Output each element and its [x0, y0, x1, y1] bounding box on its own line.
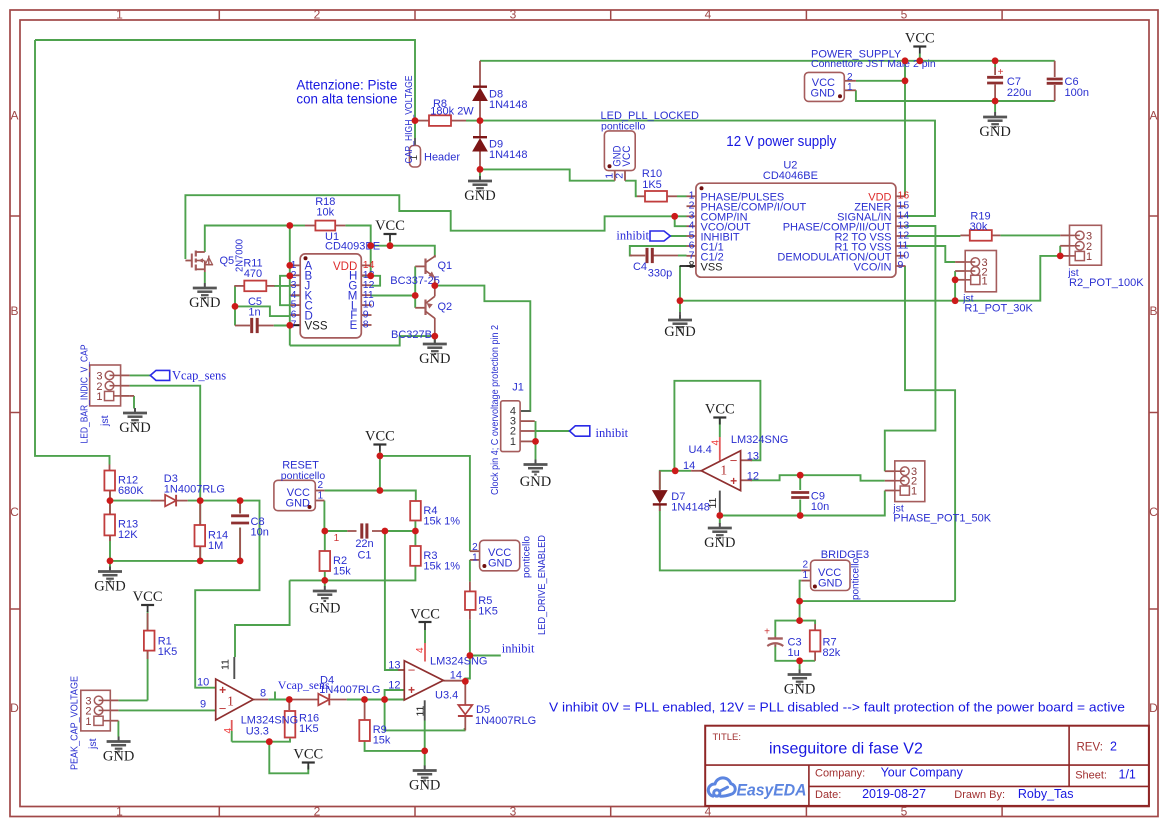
- svg-text:680K: 680K: [118, 485, 144, 497]
- svg-text:D: D: [10, 701, 19, 715]
- svg-text:A: A: [1149, 109, 1157, 123]
- svg-text:1N4148: 1N4148: [489, 99, 528, 111]
- svg-text:Header: Header: [424, 152, 460, 164]
- svg-text:1: 1: [1086, 251, 1092, 263]
- svg-text:R2_POT_100K: R2_POT_100K: [1069, 277, 1144, 289]
- svg-text:22n: 22n: [355, 538, 373, 550]
- svg-text:2: 2: [314, 7, 321, 21]
- svg-text:BRIDGE3: BRIDGE3: [821, 549, 869, 561]
- svg-text:12 V power supply: 12 V power supply: [726, 134, 837, 150]
- svg-text:2: 2: [802, 560, 808, 571]
- svg-text:inseguitore di fase V2: inseguitore di fase V2: [769, 741, 923, 758]
- svg-text:GND: GND: [811, 88, 836, 100]
- svg-text:GND: GND: [979, 124, 1010, 140]
- svg-text:VCC: VCC: [375, 218, 405, 234]
- svg-text:R1_POT_30K: R1_POT_30K: [964, 303, 1033, 315]
- svg-text:4: 4: [415, 647, 426, 653]
- svg-text:15k: 15k: [333, 566, 351, 578]
- svg-text:GND: GND: [520, 474, 551, 490]
- svg-text:TITLE:: TITLE:: [713, 732, 742, 743]
- svg-text:1N4007RLG: 1N4007RLG: [319, 684, 380, 696]
- svg-text:14: 14: [450, 669, 462, 681]
- svg-text:1: 1: [96, 391, 102, 403]
- svg-text:PEAK_CAP_VOLTAGE: PEAK_CAP_VOLTAGE: [68, 676, 80, 770]
- svg-text:GND: GND: [286, 497, 311, 509]
- svg-text:J1: J1: [512, 382, 524, 394]
- svg-text:4: 4: [223, 728, 234, 734]
- svg-text:U3.4: U3.4: [435, 690, 458, 702]
- svg-text:10k: 10k: [316, 207, 334, 219]
- svg-text:PHASE_POT1_50K: PHASE_POT1_50K: [893, 513, 991, 525]
- svg-text:GND: GND: [309, 601, 340, 617]
- svg-text:Clock pin 4; C overvoltage pro: Clock pin 4; C overvoltage protection pi…: [490, 325, 501, 495]
- svg-text:GND: GND: [818, 577, 843, 589]
- svg-text:180k 2W: 180k 2W: [430, 105, 474, 117]
- svg-text:C: C: [10, 505, 19, 519]
- svg-text:82k: 82k: [823, 647, 841, 659]
- svg-text:+: +: [730, 474, 737, 488]
- svg-text:VCC: VCC: [365, 429, 395, 445]
- svg-text:1K5: 1K5: [299, 723, 319, 735]
- svg-text:2: 2: [1110, 740, 1117, 754]
- svg-text:10n: 10n: [251, 526, 269, 538]
- svg-text:1N4007RLG: 1N4007RLG: [475, 715, 536, 727]
- svg-text:1: 1: [802, 570, 808, 581]
- svg-text:1K5: 1K5: [158, 646, 178, 658]
- svg-text:1K5: 1K5: [478, 606, 498, 618]
- svg-text:470: 470: [244, 268, 262, 280]
- svg-text:LM324SNG: LM324SNG: [430, 655, 487, 667]
- svg-text:11: 11: [415, 705, 427, 716]
- svg-text:E: E: [350, 320, 358, 332]
- svg-text:1: 1: [116, 804, 123, 818]
- svg-text:2019-08-27: 2019-08-27: [862, 787, 926, 801]
- svg-text:VCC: VCC: [621, 146, 633, 167]
- svg-text:B: B: [1149, 304, 1157, 318]
- svg-text:15k 1%: 15k 1%: [423, 516, 460, 528]
- svg-text:15k 1%: 15k 1%: [423, 561, 460, 573]
- svg-text:ponticello: ponticello: [601, 120, 646, 132]
- svg-text:Q1: Q1: [438, 260, 453, 272]
- svg-text:GND: GND: [94, 579, 125, 595]
- svg-text:U4.4: U4.4: [689, 444, 712, 456]
- svg-text:Vcap_sens: Vcap_sens: [172, 369, 226, 383]
- svg-text:inhibit: inhibit: [616, 229, 649, 243]
- svg-text:EasyEDA: EasyEDA: [737, 782, 807, 800]
- svg-text:+: +: [998, 67, 1004, 78]
- svg-text:+: +: [408, 683, 415, 697]
- svg-text:12K: 12K: [118, 529, 138, 541]
- svg-text:1: 1: [982, 276, 988, 288]
- svg-text:8: 8: [363, 319, 369, 331]
- svg-text:C1: C1: [357, 550, 371, 562]
- svg-text:GND: GND: [488, 557, 513, 569]
- svg-text:BC327B: BC327B: [391, 329, 432, 341]
- svg-text:GND: GND: [664, 324, 695, 340]
- svg-text:Attenzione: Piste: Attenzione: Piste: [296, 78, 397, 93]
- svg-text:1: 1: [510, 436, 516, 448]
- svg-text:V inhibit 0V = PLL enabled, 12: V inhibit 0V = PLL enabled, 12V = PLL di…: [549, 700, 1125, 715]
- svg-text:CD4046BE: CD4046BE: [763, 170, 818, 182]
- svg-text:15k: 15k: [373, 735, 391, 747]
- svg-text:10: 10: [197, 676, 209, 688]
- svg-text:Date:: Date:: [815, 789, 841, 801]
- svg-text:10n: 10n: [811, 501, 829, 513]
- svg-text:inhibit: inhibit: [596, 426, 629, 440]
- svg-text:LM324SNG: LM324SNG: [241, 714, 298, 726]
- svg-text:Sheet:: Sheet:: [1075, 769, 1107, 781]
- svg-text:1N4148: 1N4148: [671, 502, 710, 514]
- svg-text:14: 14: [683, 460, 695, 472]
- svg-text:1: 1: [334, 533, 340, 544]
- svg-text:GND: GND: [784, 682, 815, 698]
- svg-text:1: 1: [847, 82, 853, 93]
- svg-text:1: 1: [911, 486, 917, 498]
- svg-text:C4: C4: [633, 261, 647, 273]
- svg-text:A: A: [10, 109, 18, 123]
- svg-text:1/1: 1/1: [1119, 767, 1136, 781]
- svg-text:1n: 1n: [248, 307, 260, 319]
- svg-text:LED_BAR_INDIC_V_CAP: LED_BAR_INDIC_V_CAP: [78, 345, 90, 444]
- svg-text:Q2: Q2: [438, 301, 453, 313]
- svg-text:ponticello: ponticello: [521, 536, 533, 578]
- svg-text:VCC: VCC: [705, 402, 735, 418]
- svg-text:13: 13: [747, 451, 759, 463]
- svg-text:2: 2: [314, 804, 321, 818]
- svg-text:12: 12: [388, 679, 400, 691]
- svg-text:C: C: [1149, 505, 1158, 519]
- svg-text:12: 12: [747, 470, 759, 482]
- svg-text:3: 3: [510, 804, 517, 818]
- svg-text:B: B: [10, 304, 18, 318]
- svg-text:GND: GND: [704, 535, 735, 551]
- svg-text:2: 2: [472, 542, 478, 553]
- svg-text:9: 9: [200, 699, 206, 711]
- svg-text:VCO/IN: VCO/IN: [854, 261, 892, 273]
- svg-text:1N4148: 1N4148: [489, 149, 528, 161]
- svg-text:1: 1: [472, 553, 478, 564]
- svg-text:3: 3: [510, 7, 517, 21]
- svg-text:1u: 1u: [788, 647, 800, 659]
- svg-text:1: 1: [720, 463, 727, 478]
- svg-text:2: 2: [614, 173, 626, 179]
- svg-text:Q5: Q5: [220, 255, 235, 267]
- svg-text:ponticello: ponticello: [849, 558, 861, 600]
- svg-text:30k: 30k: [970, 221, 988, 233]
- svg-text:8: 8: [689, 259, 695, 271]
- svg-text:GND: GND: [189, 295, 220, 311]
- svg-text:inhibit: inhibit: [502, 642, 535, 656]
- svg-text:VCC: VCC: [293, 747, 323, 763]
- svg-text:VSS: VSS: [305, 320, 328, 332]
- svg-text:VCC: VCC: [133, 589, 163, 605]
- svg-text:1M: 1M: [208, 540, 223, 552]
- svg-text:+: +: [764, 627, 770, 638]
- svg-text:VDD: VDD: [333, 261, 357, 273]
- svg-text:LM324SNG: LM324SNG: [731, 434, 788, 446]
- svg-text:GND: GND: [464, 188, 495, 204]
- svg-text:VCC: VCC: [410, 607, 440, 623]
- svg-text:4: 4: [705, 7, 712, 21]
- svg-text:5: 5: [901, 7, 908, 21]
- svg-text:LED_DRIVE_ENABLED: LED_DRIVE_ENABLED: [536, 535, 548, 635]
- svg-text:4: 4: [710, 440, 721, 446]
- svg-text:GND: GND: [119, 420, 150, 436]
- svg-text:1: 1: [85, 716, 91, 728]
- svg-text:ponticello: ponticello: [281, 470, 326, 482]
- svg-text:220u: 220u: [1007, 87, 1031, 99]
- svg-text:Roby_Tas: Roby_Tas: [1018, 787, 1074, 801]
- svg-text:330p: 330p: [648, 268, 672, 280]
- svg-text:1: 1: [116, 7, 123, 21]
- svg-text:D: D: [1149, 701, 1158, 715]
- svg-text:jst: jst: [87, 738, 99, 750]
- svg-text:Drawn By:: Drawn By:: [954, 789, 1005, 801]
- svg-text:GND: GND: [419, 351, 450, 367]
- svg-text:Your Company: Your Company: [881, 765, 964, 779]
- svg-text:U3.3: U3.3: [246, 726, 269, 738]
- svg-text:13: 13: [388, 659, 400, 671]
- svg-text:VSS: VSS: [701, 261, 723, 273]
- svg-text:100n: 100n: [1065, 87, 1089, 99]
- svg-text:GND: GND: [103, 749, 134, 765]
- svg-text:1K5: 1K5: [642, 179, 662, 191]
- svg-text:11: 11: [219, 659, 231, 670]
- svg-text:1: 1: [318, 491, 324, 502]
- svg-text:9: 9: [898, 259, 904, 271]
- svg-text:+: +: [219, 683, 226, 697]
- svg-text:−: −: [408, 663, 416, 678]
- svg-text:8: 8: [260, 688, 266, 700]
- svg-text:jst: jst: [99, 415, 111, 427]
- svg-text:VCC: VCC: [905, 31, 935, 47]
- svg-text:−: −: [219, 701, 227, 716]
- svg-text:−: −: [730, 453, 738, 468]
- svg-text:REV:: REV:: [1077, 742, 1103, 754]
- svg-text:Company:: Company:: [815, 767, 865, 779]
- svg-text:con alta tensione: con alta tensione: [296, 92, 397, 107]
- svg-text:1: 1: [227, 694, 234, 709]
- svg-text:1N4007RLG: 1N4007RLG: [164, 484, 225, 496]
- svg-text:GND: GND: [409, 778, 440, 794]
